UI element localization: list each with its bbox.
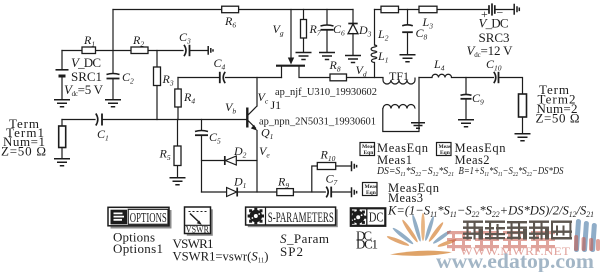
svg-text:Vdc=12 V: Vdc=12 V — [467, 43, 514, 59]
svg-text:VSWR1=vswr(S11): VSWR1=vswr(S11) — [173, 249, 269, 265]
svg-text:SP2: SP2 — [280, 244, 303, 259]
svg-text:ap_njf_U310_19930602: ap_njf_U310_19930602 — [275, 87, 377, 98]
svg-text:Meas2: Meas2 — [455, 153, 490, 167]
svg-text:−: − — [497, 6, 504, 20]
svg-text:B=1+S11*S11−S22*S22−DS*DS: B=1+S11*S11−S22*S22−DS*DS — [459, 166, 564, 178]
svg-text:K=(1−S11*S11−S22*S22+DS*DS)/2/: K=(1−S11*S11−S22*S22+DS*DS)/2/S12/S21 — [387, 203, 594, 220]
svg-text:Options1: Options1 — [113, 241, 163, 256]
svg-text:Vdc=5 V: Vdc=5 V — [64, 82, 104, 98]
svg-text:Eqn: Eqn — [364, 150, 374, 156]
svg-text:www.edatop.com: www.edatop.com — [436, 249, 595, 272]
svg-text:VSWR: VSWR — [186, 226, 210, 236]
svg-text:Z=50 Ω: Z=50 Ω — [1, 144, 46, 159]
svg-text:S-PARAMETERS: S-PARAMETERS — [268, 210, 334, 226]
svg-text:+: + — [481, 7, 488, 21]
svg-text:Z=50 Ω: Z=50 Ω — [536, 111, 580, 126]
svg-text:ap_npn_2N5031_19930601: ap_npn_2N5031_19930601 — [259, 117, 376, 128]
svg-text:DS=S11*S22−S12*S21: DS=S11*S22−S12*S21 — [376, 166, 454, 178]
svg-text:DC: DC — [369, 211, 384, 226]
svg-text:Eqn: Eqn — [366, 190, 376, 196]
svg-text:J1: J1 — [271, 98, 282, 112]
svg-text:DC1: DC1 — [356, 237, 378, 252]
svg-text:Meas1: Meas1 — [377, 153, 412, 167]
svg-text:V_DC: V_DC — [71, 55, 101, 70]
svg-text:OPTIONS: OPTIONS — [130, 211, 167, 226]
svg-text:TF1: TF1 — [389, 69, 409, 83]
svg-text:Eqn: Eqn — [440, 150, 450, 156]
